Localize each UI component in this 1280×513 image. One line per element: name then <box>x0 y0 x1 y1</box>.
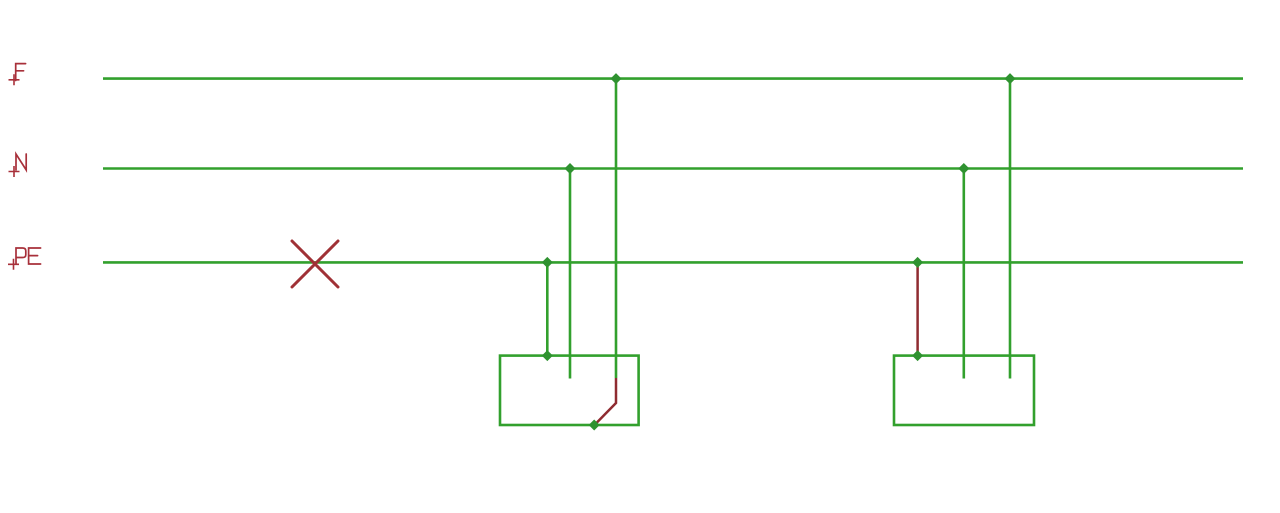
load box 1 <box>500 356 639 425</box>
junction on load 1 bottom edge (case) <box>589 420 600 431</box>
label F <box>16 64 26 81</box>
fault X on PE wire <box>292 241 338 287</box>
wire F (phase bus) <box>103 77 1243 80</box>
junction on F at load 1 tap <box>611 73 622 84</box>
label PE <box>16 248 41 264</box>
wire N drop to load 2 <box>962 169 965 379</box>
junction on load 1 top edge <box>542 350 553 361</box>
junction on load 2 top edge <box>912 350 923 361</box>
wire PE (protective earth bus) <box>103 261 1243 264</box>
fault wire phase-to-case in load 1 <box>594 378 616 425</box>
anchor cross N <box>9 166 20 177</box>
wire PE drop to load 1 <box>546 262 549 355</box>
fault wire PE drop to load 2 <box>916 262 919 355</box>
load box 2 <box>894 356 1034 425</box>
wire N (neutral bus) <box>103 167 1243 170</box>
wire N drop to load 1 <box>569 169 572 379</box>
junction on N at load 2 tap <box>958 163 969 174</box>
anchor cross PE <box>8 259 19 270</box>
anchor cross F <box>9 74 20 85</box>
wire F drop to load 2 <box>1009 79 1012 379</box>
wire F drop to load 1 <box>615 79 618 378</box>
junction on N at load 1 tap <box>565 163 576 174</box>
junction on F at load 2 tap <box>1005 73 1016 84</box>
junction on PE at load 2 tap <box>912 257 923 268</box>
junction on PE at load 1 tap <box>542 257 553 268</box>
label N <box>16 154 26 170</box>
